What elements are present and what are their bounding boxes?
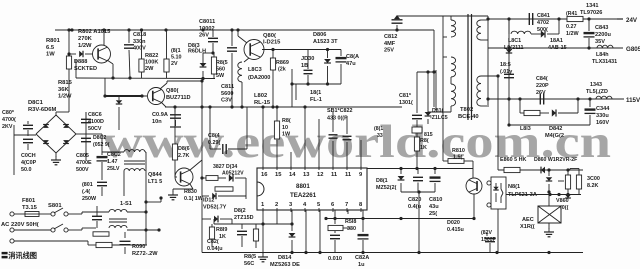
svg-text:R5l8: R5l8 — [345, 219, 356, 225]
label L842 — [520, 126, 531, 132]
capacitor C802 electro — [97, 134, 108, 172]
svg-text:18:5: 18:5 — [500, 62, 511, 68]
wire bottom rail — [202, 252, 583, 254]
pin 1 wire + ground — [258, 210, 268, 262]
junction y107 e — [303, 105, 306, 108]
junction row1 — [507, 17, 590, 20]
wire rail down to R801 — [67, 28, 70, 56]
label R805 — [216, 60, 228, 79]
capacitor C817 — [412, 72, 422, 133]
capacitor C819 10n — [170, 107, 181, 127]
label V860 — [556, 198, 569, 211]
svg-text:2V: 2V — [171, 61, 178, 67]
svg-text:1500P: 1500P — [481, 237, 497, 243]
label D808 — [74, 59, 97, 72]
svg-text:T3.15: T3.15 — [22, 205, 38, 211]
svg-text:RL-15: RL-15 — [254, 100, 271, 106]
junction top rail/C806 — [201, 28, 204, 31]
label R863 — [587, 176, 600, 189]
label L811 TL — [580, 3, 602, 16]
junction y168 — [399, 167, 436, 170]
capacitor C811 — [227, 30, 237, 109]
capacitor C823 — [330, 231, 340, 253]
svg-text:2.7K: 2.7K — [178, 153, 189, 159]
bridge diode 1 — [43, 125, 49, 128]
label C802 — [107, 152, 121, 172]
junction y170 — [547, 168, 570, 171]
svg-text:100K: 100K — [145, 60, 158, 66]
svg-text:R8(: R8( — [420, 138, 429, 144]
svg-text:26V: 26V — [199, 33, 209, 39]
svg-text:D8C1: D8C1 — [28, 100, 44, 106]
svg-text:25LV: 25LV — [107, 166, 120, 172]
svg-text:330u: 330u — [596, 113, 609, 119]
svg-text:(8(1: (8(1 — [171, 48, 181, 54]
svg-text:1.5(: 1.5( — [453, 155, 462, 161]
svg-text:8.2K: 8.2K — [587, 183, 598, 189]
resistor R862 — [558, 168, 571, 194]
label R825 — [244, 254, 256, 267]
svg-text:D814: D814 — [278, 255, 292, 261]
svg-text:(DA2000: (DA2000 — [248, 75, 270, 81]
wire Q803 collector diag — [160, 81, 202, 89]
wire 549 down — [548, 170, 550, 176]
svg-text:C811: C811 — [221, 84, 234, 90]
svg-text:F801: F801 — [22, 198, 36, 204]
capacitor C806b — [81, 138, 91, 141]
svg-text:A1523 3T: A1523 3T — [313, 39, 338, 45]
svg-text:1/2W: 1/2W — [566, 31, 579, 37]
junction top rail/R822 — [164, 28, 167, 31]
label AEC — [520, 217, 535, 230]
svg-text:35V: 35V — [595, 39, 605, 45]
svg-text:560: 560 — [216, 67, 225, 73]
svg-text:11: 11 — [331, 172, 338, 178]
resistor R823 — [164, 30, 169, 78]
wire 509 vertical — [508, 19, 510, 99]
label C805 — [88, 112, 104, 132]
svg-text:11: 11 — [345, 172, 352, 178]
svg-text:C8(4: C8(4 — [208, 133, 220, 139]
junction y107 c — [261, 105, 264, 108]
svg-text:4MF: 4MF — [384, 41, 396, 47]
label Q802 BUZ711D — [166, 88, 191, 101]
optocoupler N861 box — [491, 177, 506, 209]
diode D808 — [69, 51, 93, 57]
svg-text:1K: 1K — [420, 145, 427, 151]
svg-text:4100D: 4100D — [88, 119, 104, 125]
svg-text:I-D215: I-D215 — [263, 40, 281, 46]
wire Q803 base — [135, 95, 147, 97]
wire fuse to switch — [39, 213, 48, 215]
wire Q844 emitter — [173, 184, 193, 192]
svg-text:C805: C805 — [76, 153, 89, 159]
label R818 — [345, 219, 356, 232]
wire Q802 collector down — [107, 60, 113, 78]
label C810 — [429, 197, 442, 217]
svg-text:〓消讯线图: 〓消讯线图 — [1, 251, 37, 260]
svg-text:7: 7 — [345, 202, 348, 208]
fuse F801 — [25, 212, 39, 217]
diode D809 — [116, 97, 122, 130]
wire AC E — [14, 241, 96, 245]
svg-text:D8C2: D8C2 — [93, 135, 106, 141]
svg-text:0.29(: 0.29( — [208, 140, 220, 146]
capacitor C861 — [485, 232, 495, 250]
transistor Q801 2SD1915 — [236, 28, 264, 59]
svg-text:SCKTED: SCKTED — [74, 66, 97, 72]
label 115V — [626, 97, 640, 104]
svg-text:R8(5: R8(5 — [244, 254, 256, 260]
capacitor C807 — [336, 50, 347, 85]
junction y219 pins — [333, 217, 402, 220]
bridge diode 2 — [63, 125, 69, 128]
svg-text:JD30: JD30 — [301, 56, 314, 62]
wire 214 drop — [213, 219, 215, 224]
label R809 — [276, 60, 289, 73]
switch S801 pole2 — [14, 224, 75, 232]
label N801 TEA2261 — [290, 183, 317, 199]
label C823 — [328, 256, 342, 262]
svg-text:C80*: C80* — [2, 110, 15, 116]
label D806 — [313, 32, 338, 45]
pin 3 wire + D814 — [289, 210, 296, 253]
svg-text:3827 D(34: 3827 D(34 — [213, 164, 237, 170]
transformer T802 primary top winding — [443, 16, 456, 110]
wire y72 link — [417, 70, 436, 73]
svg-text:18A1: 18A1 — [550, 38, 563, 44]
junction y107 b — [200, 105, 203, 108]
bridge rectifier D801 — [36, 115, 76, 153]
label G805 — [626, 46, 640, 53]
capacitor C809 — [120, 232, 131, 254]
label L802 RL-15 — [254, 93, 271, 106]
transformer core — [468, 14, 472, 120]
line filter L800 bottom winding — [124, 152, 146, 202]
svg-text:25(: 25( — [429, 211, 437, 217]
capacitor C847 — [540, 94, 543, 105]
resistor R825 — [253, 224, 258, 248]
label R817 — [420, 138, 429, 151]
svg-text:SB1*C822: SB1*C822 — [327, 108, 352, 114]
diode D813 — [425, 72, 432, 124]
svg-text:500V: 500V — [76, 167, 89, 173]
svg-text:2TZ15D: 2TZ15D — [234, 215, 254, 221]
label R819 — [216, 227, 227, 240]
capacitor C810 electro — [430, 169, 441, 193]
svg-text:MZ52(2(: MZ52(2( — [376, 185, 397, 191]
label C812 — [384, 34, 397, 54]
label D801 — [28, 100, 57, 113]
wire row4 — [507, 99, 590, 127]
svg-text:2200u: 2200u — [595, 32, 611, 38]
svg-text:330n: 330n — [133, 39, 146, 45]
capacitor C812 — [392, 15, 403, 30]
label Q844 — [148, 172, 163, 185]
pin numbers IC — [261, 166, 363, 212]
wire y168 right — [367, 168, 473, 170]
label R860 — [500, 157, 526, 163]
svg-text:BUZ711D: BUZ711D — [166, 95, 191, 101]
label R823 — [171, 48, 182, 67]
svg-text:D842: D842 — [549, 126, 562, 132]
pin 7 stub — [347, 210, 349, 214]
svg-text:5600: 5600 — [221, 91, 233, 97]
svg-text:D8(6: D8(6 — [178, 146, 190, 152]
capacitor C844 — [585, 99, 596, 125]
wire y195 link — [506, 193, 581, 196]
resistor R829 — [215, 187, 233, 191]
svg-text:0.04(u: 0.04(u — [207, 246, 223, 252]
svg-text:1W: 1W — [282, 132, 291, 138]
svg-text:5.10: 5.10 — [171, 54, 182, 60]
resistor R818 — [328, 219, 352, 231]
svg-text:50.0: 50.0 — [21, 167, 32, 173]
label L845 — [592, 52, 617, 65]
svg-text:47u: 47u — [346, 61, 356, 67]
svg-text:13: 13 — [303, 172, 310, 178]
svg-text:TLP621-3A: TLP621-3A — [508, 192, 537, 198]
svg-text:C8(A: C8(A — [346, 54, 359, 60]
svg-text:R090: R090 — [132, 244, 145, 250]
label D860 — [534, 157, 577, 163]
diode D812 — [202, 216, 232, 224]
wire rail corner down — [433, 30, 435, 107]
watermark — [102, 116, 611, 168]
pin 6 wire — [334, 210, 336, 219]
junction y224 — [261, 222, 293, 225]
svg-text:T802: T802 — [460, 107, 473, 113]
svg-text:R810: R810 — [452, 148, 465, 154]
capacitor C841 — [529, 13, 532, 25]
svg-text:C8C6: C8C6 — [88, 112, 102, 118]
resistor R819 — [209, 224, 214, 247]
label D842 — [545, 126, 564, 139]
svg-text:VD52(.7Y: VD52(.7Y — [203, 205, 227, 211]
label L804 FL-1 — [310, 90, 322, 103]
label C824 — [208, 133, 220, 146]
diode D834 — [229, 174, 246, 199]
pin 16 wire — [262, 107, 264, 168]
diode D810 — [202, 193, 246, 199]
svg-text:250W: 250W — [82, 196, 97, 202]
line filter L800 core — [124, 161, 145, 164]
svg-text:(052 9(: (052 9( — [93, 142, 110, 148]
label C819 — [152, 112, 168, 125]
label R827 D834 — [213, 164, 244, 177]
capacitor C805 — [81, 112, 91, 123]
pin 8 wire C825 — [358, 210, 369, 253]
label C811 — [221, 84, 234, 104]
svg-text:D81(: D81( — [432, 108, 444, 114]
label C817 — [399, 93, 413, 106]
svg-text:C344: C344 — [596, 106, 610, 112]
svg-text:50CV: 50CV — [88, 126, 102, 132]
svg-text:FL-1: FL-1 — [310, 97, 322, 103]
label R833 — [374, 126, 383, 139]
svg-text:L8C1: L8C1 — [508, 38, 521, 44]
svg-text:0.415u: 0.415u — [447, 227, 464, 233]
svg-text:4700(: 4700( — [2, 117, 16, 123]
terminal opto a — [487, 181, 491, 185]
svg-text:1K: 1K — [219, 234, 226, 240]
label C861 — [481, 230, 497, 243]
svg-text:400V: 400V — [133, 46, 146, 52]
pin 12 wire — [318, 119, 320, 168]
wire Q801 emitter to L803 — [244, 58, 249, 62]
svg-text:270K: 270K — [78, 36, 93, 42]
svg-text:1341: 1341 — [586, 3, 598, 9]
label L803 — [248, 67, 270, 81]
chinese caption — [1, 251, 37, 260]
resistor R890 — [96, 242, 147, 247]
svg-text:1301(: 1301( — [399, 100, 413, 106]
label D803 — [188, 43, 206, 55]
svg-text:MZ5263 DE: MZ5263 DE — [270, 262, 300, 268]
svg-text:G805: G805 — [626, 46, 640, 53]
terminal AC L — [10, 212, 14, 216]
svg-text:115V: 115V — [626, 97, 640, 104]
capacitor C806 — [203, 30, 218, 63]
svg-text:26V: 26V — [536, 90, 546, 96]
svg-text:TL97026: TL97026 — [580, 10, 602, 16]
label C806 — [199, 19, 215, 39]
svg-text:(8(1: (8(1 — [374, 126, 383, 132]
switch S801 pole1 — [48, 208, 75, 216]
transistor V810 — [466, 169, 482, 195]
label R830 — [184, 189, 204, 202]
svg-text:(801: (801 — [82, 182, 93, 188]
svg-text:(82V: (82V — [481, 230, 492, 236]
svg-text:Q844: Q844 — [148, 172, 163, 178]
diode D860 — [520, 167, 545, 174]
svg-text:(.01y: (.01y — [500, 69, 512, 75]
pin 9 wire — [360, 140, 362, 168]
resistor R805 — [211, 53, 216, 79]
label C807 — [346, 54, 359, 67]
svg-text:C82(: C82( — [207, 239, 219, 245]
wire long mid rail y107 — [165, 106, 402, 108]
wire y224 node — [214, 223, 292, 225]
junction row2 — [507, 46, 590, 49]
svg-text:D806: D806 — [313, 32, 326, 38]
svg-text:36K: 36K — [58, 87, 69, 93]
label T801 — [120, 201, 132, 207]
svg-text:5W: 5W — [216, 73, 225, 79]
svg-text:4700E: 4700E — [76, 160, 92, 166]
svg-text:0.010: 0.010 — [328, 256, 342, 262]
resistor R801 — [66, 56, 71, 69]
junction base — [140, 94, 143, 97]
svg-text:M4(G(2: M4(G(2 — [545, 133, 564, 139]
label F801 — [22, 198, 38, 211]
bridge diode 3 — [43, 140, 49, 143]
svg-text:X1R((: X1R(( — [520, 224, 535, 230]
capacitor C820 — [413, 169, 423, 193]
resistor R827 — [200, 176, 226, 181]
wire drain node — [200, 79, 203, 160]
wire R801 to bridge — [56, 69, 69, 116]
svg-text:C81*: C81* — [399, 93, 412, 99]
line filter T801 winding bottom — [75, 225, 127, 230]
svg-text:Q80(: Q80( — [166, 88, 179, 94]
svg-text:-Z1LC5: -Z1LC5 — [430, 115, 448, 121]
label D841 — [548, 38, 567, 51]
label C821 — [207, 239, 223, 252]
line filter L800 top winding — [102, 150, 146, 152]
resistor R863 — [570, 169, 582, 195]
svg-text:220P: 220P — [536, 83, 549, 89]
inductor L843 — [596, 96, 624, 99]
transformer T802 primary mid winding — [443, 57, 456, 77]
transistor Q802 BUZ71 driver — [148, 88, 165, 105]
optocoupler N861 internals — [493, 183, 503, 203]
label R841 — [566, 11, 579, 37]
svg-text:1.47: 1.47 — [107, 159, 118, 165]
capacitor C818 — [124, 30, 134, 78]
svg-text:(2k: (2k — [278, 67, 286, 73]
junction y192 — [417, 190, 420, 193]
label C820 — [408, 197, 422, 210]
capacitor C843 — [584, 19, 595, 48]
pin 4 wire — [305, 210, 307, 253]
svg-text:R802 A1015: R802 A1015 — [78, 29, 111, 35]
zener D861 — [546, 177, 552, 206]
svg-text:4(C0P: 4(C0P — [21, 160, 37, 166]
label L843 — [586, 82, 608, 95]
junction top rail/C812 — [395, 28, 398, 31]
svg-text:56C: 56C — [244, 261, 254, 267]
label C844 — [596, 106, 610, 126]
label R890 — [132, 244, 158, 257]
label D813 cluster — [430, 108, 448, 121]
resistor R842 — [520, 110, 549, 115]
wire filter out bottom — [127, 228, 161, 231]
svg-text:R869: R869 — [276, 60, 289, 66]
diode D807 — [324, 50, 331, 85]
pin 14 wire — [290, 152, 292, 168]
transistor Q802 A1015 — [93, 45, 111, 63]
wire bridge to right — [86, 133, 102, 135]
svg-text:24V: 24V — [626, 17, 638, 24]
junction y107 a — [173, 105, 176, 108]
svg-text:C818: C818 — [133, 32, 146, 38]
label N861 — [508, 184, 537, 198]
wire collector line down — [201, 160, 203, 253]
label L841 — [504, 38, 523, 51]
svg-text:R822: R822 — [145, 53, 158, 59]
label D814 — [270, 255, 300, 268]
label C803 — [2, 110, 16, 130]
resistor R809 — [270, 50, 275, 108]
capacitor C824 — [208, 105, 247, 154]
svg-text:C843: C843 — [595, 25, 608, 31]
svg-text:D860 W1R2VR-2F: D860 W1R2VR-2F — [534, 157, 577, 163]
resistor R826 — [172, 107, 177, 172]
junction top rail/C811 — [230, 28, 233, 31]
svg-text:AEC: AEC — [522, 217, 534, 223]
svg-text:25V: 25V — [384, 48, 394, 54]
svg-text:C84(: C84( — [536, 76, 548, 82]
svg-text:TEA2261: TEA2261 — [290, 192, 317, 199]
diode D803 — [200, 63, 207, 80]
junction R809 y107 — [271, 105, 274, 108]
svg-text:815: 815 — [424, 132, 433, 138]
terminal AC N — [10, 228, 14, 232]
wire filter out right — [127, 196, 163, 245]
capacitor C803 — [23, 121, 33, 136]
label C813 — [301, 56, 314, 69]
